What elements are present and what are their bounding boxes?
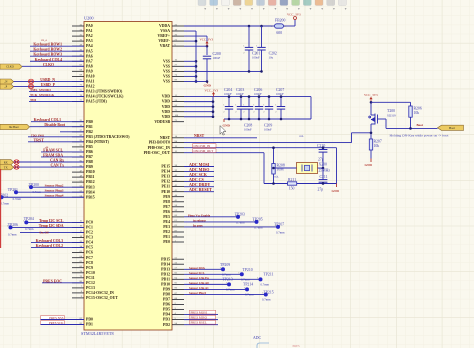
- svg-text:VSS: VSS: [163, 75, 170, 79]
- svg-text:1: 1: [23, 221, 24, 223]
- svg-text:PB10: PB10: [86, 170, 95, 174]
- svg-text:PC10: PC10: [86, 271, 95, 275]
- svg-text:PA9: PA9: [86, 69, 93, 73]
- svg-text:0.7mm: 0.7mm: [1, 202, 10, 206]
- wire Keyboard ROW2: [30, 50, 84, 52]
- wire T200 source: [370, 102, 372, 115]
- svg-text:1: 1: [253, 220, 254, 222]
- svg-text:STM32L4R5VET8: STM32L4R5VET8: [81, 331, 114, 336]
- svg-text:PD2: PD2: [163, 323, 170, 327]
- capacitor C204: [223, 97, 233, 119]
- svg-text:TP200: TP200: [29, 183, 39, 187]
- junction: [370, 101, 373, 104]
- svg-text:PRES EOC: PRES EOC: [43, 279, 62, 283]
- svg-text:0.7mm: 0.7mm: [254, 225, 263, 229]
- svg-text:PC3: PC3: [86, 236, 93, 240]
- net label PRES NSS (boxed): [41, 316, 65, 320]
- svg-text:PC12: PC12: [86, 281, 95, 285]
- svg-text:PE6: PE6: [163, 210, 170, 214]
- junction: [248, 95, 251, 98]
- svg-text:R207: R207: [374, 140, 382, 144]
- svg-text:Sensor 12in En: Sensor 12in En: [189, 276, 209, 280]
- svg-text:0.7mm: 0.7mm: [262, 298, 271, 302]
- svg-text:R206: R206: [414, 107, 422, 111]
- svg-text:1: 1: [243, 105, 244, 107]
- ferrite bead FB200: [271, 19, 295, 36]
- svg-text:FRAM SCL: FRAM SCL: [43, 148, 63, 152]
- svg-text:PH0-OSC_IN: PH0-OSC_IN: [148, 146, 171, 150]
- test point TP213: [223, 277, 236, 291]
- svg-text:100nF: 100nF: [252, 56, 260, 60]
- svg-text:T200: T200: [387, 109, 395, 113]
- svg-text:1: 1: [253, 105, 254, 107]
- svg-text:Temp I2C SCL: Temp I2C SCL: [39, 219, 64, 223]
- wire VDD vertical rail: [212, 97, 214, 117]
- net label PRES MISO (boxed): [190, 315, 216, 319]
- test point TP211: [257, 272, 273, 286]
- junction: [280, 95, 283, 98]
- wire VDDA rail: [184, 25, 272, 27]
- svg-text:In pres: In pres: [193, 223, 203, 227]
- wire TDI: [29, 101, 84, 103]
- junction: [272, 167, 275, 170]
- junction: [228, 95, 231, 98]
- svg-text:Sensor Plug1: Sensor Plug1: [189, 291, 207, 295]
- capacitor C209: [263, 97, 273, 119]
- svg-text:VDDA: VDDA: [159, 24, 170, 28]
- svg-text:VDD: VDD: [162, 95, 170, 99]
- wire PRES MOSI: [184, 314, 218, 316]
- svg-text:PB15: PB15: [86, 195, 95, 199]
- svg-text:ble Boot: ble Boot: [9, 126, 19, 129]
- svg-text:1: 1: [271, 26, 272, 28]
- svg-text:TP213: TP213: [223, 277, 233, 281]
- svg-text:TRST: TRST: [34, 137, 45, 142]
- svg-text:TX: TX: [4, 166, 8, 169]
- svg-text:CAN Rx: CAN Rx: [50, 158, 64, 162]
- wire PRES NSS: [41, 319, 85, 321]
- svg-text:10u: 10u: [269, 56, 274, 60]
- svg-text:PC8: PC8: [86, 261, 93, 265]
- svg-text:PB2: PB2: [86, 130, 93, 134]
- svg-text:VDD: VDD: [162, 110, 170, 114]
- capacitor C202: [256, 26, 266, 71]
- svg-text:2: 2: [263, 111, 264, 113]
- svg-text:PD10: PD10: [161, 283, 170, 287]
- svg-text:PA7: PA7: [86, 59, 93, 63]
- svg-text:n.h.: n.h.: [300, 134, 305, 138]
- U200 left pins PA0-PA15 PB0-PB15 PC0-PC15 PD0-PD1: [72, 23, 130, 326]
- svg-text:TP211: TP211: [264, 272, 274, 276]
- no-ERC marker on CAN Rx: [14, 160, 19, 164]
- wire VBAT: [184, 45, 207, 47]
- svg-text:PA10: PA10: [86, 75, 95, 79]
- svg-text:NRST: NRST: [160, 136, 171, 140]
- junction: [212, 115, 215, 118]
- svg-text:PD6: PD6: [163, 303, 170, 307]
- svg-text:2: 2: [243, 111, 244, 113]
- svg-text:1: 1: [28, 185, 29, 187]
- svg-text:PC13: PC13: [86, 286, 95, 290]
- capacitor C203: [235, 97, 245, 119]
- svg-text:PE7: PE7: [163, 205, 170, 209]
- svg-text:OSC25M_OUT: OSC25M_OUT: [194, 149, 214, 153]
- wire VDD rows to rail: [184, 96, 213, 98]
- svg-text:PA11: PA11: [86, 80, 94, 84]
- ground GND (analog): [204, 82, 212, 88]
- svg-text:Piezo Vcc Enable: Piezo Vcc Enable: [188, 213, 211, 217]
- wire Sensor Plug4: [2, 196, 85, 198]
- wire Keyboard COL3: [31, 242, 84, 244]
- svg-text:1: 1: [262, 293, 263, 295]
- wire right vertical: [336, 148, 338, 184]
- capacitor C211: [318, 168, 328, 191]
- svg-text:On_Off: On_Off: [39, 231, 48, 234]
- svg-text:CLKO: CLKO: [6, 66, 14, 69]
- svg-text:TCK_SWDCLK: TCK_SWDCLK: [30, 93, 54, 97]
- svg-text:1: 1: [7, 226, 8, 228]
- wire CLKO: [22, 65, 84, 67]
- port CLKO: [0, 64, 22, 69]
- svg-text:PC4: PC4: [86, 241, 93, 245]
- no-ERC marker on USBD_P: [28, 84, 33, 88]
- svg-text:100nF: 100nF: [244, 127, 252, 131]
- svg-text:PD14: PD14: [161, 262, 170, 266]
- capacitor C206: [253, 97, 263, 119]
- svg-text:PC9: PC9: [86, 266, 93, 270]
- svg-text:Keyboard ROW1: Keyboard ROW1: [33, 43, 62, 47]
- wire Temp I2C SDA: [11, 226, 85, 228]
- wire VSS: [184, 75, 196, 77]
- svg-text:25MHz: 25MHz: [319, 168, 331, 172]
- svg-text:TDI: TDI: [30, 98, 37, 102]
- svg-text:PE10: PE10: [161, 190, 170, 194]
- wire VREF-: [184, 40, 196, 42]
- svg-text:Sensor SCL: Sensor SCL: [189, 271, 205, 275]
- svg-text:PE11: PE11: [162, 185, 171, 189]
- junction: [322, 146, 325, 149]
- wire VSSA: [184, 30, 196, 32]
- wire TRST: [28, 141, 84, 143]
- junction: [212, 110, 215, 113]
- svg-text:VSS: VSS: [163, 64, 170, 68]
- capacitor C200: [203, 56, 211, 81]
- junction: [195, 65, 198, 68]
- svg-text:in release: in release: [193, 218, 206, 222]
- svg-text:PE13: PE13: [161, 175, 170, 179]
- svg-text:PC2: PC2: [86, 231, 93, 235]
- svg-text:PE9: PE9: [163, 195, 170, 199]
- wire bottom rail right: [297, 183, 337, 185]
- svg-text:PD15: PD15: [161, 257, 170, 261]
- wire CAN Rx: [14, 161, 85, 163]
- wire PRES MISO: [184, 319, 218, 321]
- test point TP201: [8, 188, 22, 201]
- svg-text:1: 1: [13, 190, 14, 192]
- svg-text:PE8: PE8: [163, 200, 170, 204]
- junction: [260, 25, 263, 28]
- wire cap right drop: [310, 97, 312, 119]
- svg-text:VREF+: VREF+: [158, 34, 171, 38]
- wire OSC_OUT: [184, 152, 264, 154]
- svg-text:2: 2: [285, 26, 286, 28]
- svg-text:VDD: VDD: [162, 105, 170, 109]
- svg-text:PD5: PD5: [163, 308, 170, 312]
- transistor T200 SI2319 (PMOS): [369, 114, 386, 126]
- svg-text:Sensor Plug4: Sensor Plug4: [45, 194, 64, 198]
- junction: [272, 146, 275, 149]
- junction: [195, 40, 198, 43]
- svg-text:PRES MOSI: PRES MOSI: [191, 310, 207, 314]
- svg-text:PE1: PE1: [163, 235, 170, 239]
- svg-text:PC6: PC6: [86, 251, 93, 255]
- svg-text:PRES MISO: PRES MISO: [191, 315, 208, 319]
- svg-text:Sensor SDA: Sensor SDA: [189, 266, 206, 270]
- svg-text:100nF: 100nF: [254, 92, 262, 96]
- svg-text:PB7: PB7: [86, 155, 93, 159]
- svg-text:TP209: TP209: [220, 263, 230, 267]
- junction: [248, 118, 251, 121]
- wire VSS bottom rail: [196, 70, 262, 72]
- wire Sensor 12in En: [184, 278, 261, 280]
- junction: [322, 182, 325, 185]
- junction: [212, 105, 215, 108]
- test point TP207: [274, 222, 285, 234]
- svg-text:100nF: 100nF: [213, 56, 221, 60]
- power port VCC_3V3 (VDD rail): [205, 88, 219, 96]
- svg-text:0.7mm: 0.7mm: [261, 283, 270, 287]
- wire TCK_SWDCLK: [29, 96, 84, 98]
- wire to R206 top: [371, 101, 411, 103]
- wire VSS: [184, 80, 196, 82]
- svg-text:PRES: PRES: [293, 344, 301, 348]
- svg-text:PD12: PD12: [161, 272, 170, 276]
- svg-text:PA5: PA5: [86, 49, 93, 53]
- net label PRES RSEL (boxed): [190, 320, 216, 324]
- svg-text:TP214: TP214: [243, 282, 253, 286]
- svg-text:ADC: ADC: [253, 336, 261, 340]
- svg-text:1: 1: [263, 105, 264, 107]
- junction: [195, 75, 198, 78]
- junction: [195, 70, 198, 73]
- wire Piezo Vcc Enable: [184, 216, 238, 218]
- svg-text:PA4: PA4: [86, 44, 93, 48]
- svg-text:_N: _N: [3, 81, 7, 84]
- capacitor C208: [243, 97, 253, 119]
- wire VSS rail vertical: [195, 31, 197, 81]
- svg-text:TP206: TP206: [8, 223, 18, 227]
- test point TP206: [7, 223, 18, 236]
- test point TP209: [220, 263, 231, 277]
- svg-text:PE4: PE4: [163, 220, 170, 224]
- svg-text:VDD: VDD: [162, 115, 170, 119]
- junction: [280, 118, 283, 121]
- svg-text:U200: U200: [84, 16, 94, 21]
- toolbar icon strip (cut off at top): [198, 0, 347, 10]
- junction: [248, 25, 251, 28]
- svg-text:0.7mm: 0.7mm: [33, 190, 42, 194]
- wire bottom rail left: [264, 183, 288, 185]
- wire ADC DRDY: [184, 186, 214, 188]
- wire ADC SCK: [184, 176, 214, 178]
- svg-text:PE15: PE15: [161, 165, 170, 169]
- wire BOOT0 to T200: [352, 132, 372, 134]
- port Disable Boot: [0, 124, 30, 129]
- svg-text:2: 2: [256, 52, 257, 54]
- wire gate drop: [385, 119, 387, 128]
- svg-text:10k: 10k: [414, 111, 420, 115]
- svg-text:PD9: PD9: [163, 288, 170, 292]
- wire Keyboard ROW3: [30, 55, 84, 57]
- net label PRES SCK (boxed): [41, 321, 65, 325]
- junction: [240, 95, 243, 98]
- svg-text:C211: C211: [320, 175, 328, 179]
- svg-text:NRST: NRST: [194, 134, 205, 138]
- port USBD_N: [0, 79, 14, 84]
- svg-text:2: 2: [275, 111, 276, 113]
- svg-text:PC14-OSC32_IN: PC14-OSC32_IN: [86, 291, 114, 295]
- svg-text:1: 1: [235, 105, 236, 107]
- wire Sensor Plug1: [184, 293, 266, 295]
- wire ADC MOSI: [184, 166, 214, 168]
- wire BOOT0 riser: [351, 133, 353, 143]
- svg-text:2: 2: [243, 52, 244, 54]
- svg-text:PB6: PB6: [86, 150, 93, 154]
- svg-text:10k: 10k: [374, 144, 380, 148]
- junction: [268, 95, 271, 98]
- svg-text:PA2: PA2: [86, 34, 93, 38]
- svg-text:PE3: PE3: [163, 225, 170, 229]
- svg-text:_P: _P: [3, 86, 7, 89]
- wire ADC CS: [184, 181, 214, 183]
- wire TDO_SWO: [28, 136, 84, 138]
- svg-text:PC1: PC1: [86, 226, 93, 230]
- capacitor C207: [275, 97, 285, 119]
- svg-text:TP204: TP204: [24, 217, 34, 221]
- mouse cursor: [220, 126, 226, 136]
- port CAN RX: [0, 160, 14, 165]
- svg-text:PC15-OSC32_OUT: PC15-OSC32_OUT: [86, 296, 118, 300]
- svg-text:GND: GND: [365, 163, 373, 167]
- wire Keyboard ROW1: [30, 45, 84, 47]
- svg-text:1: 1: [226, 283, 227, 285]
- svg-text:1: 1: [243, 46, 244, 48]
- svg-text:1: 1: [220, 267, 221, 269]
- svg-text:Holding ON-Key while power on: Holding ON-Key while power on -> boot: [390, 133, 449, 137]
- svg-text:RX: RX: [4, 161, 8, 164]
- crystal X200: [274, 163, 331, 174]
- svg-text:VDDUSB: VDDUSB: [154, 120, 170, 124]
- svg-text:PB14: PB14: [86, 190, 95, 194]
- junction: [272, 182, 275, 185]
- ground GND (VDD caps): [223, 119, 231, 127]
- wire cap bottom rail: [224, 118, 311, 120]
- no-ERC marker on USBD_N: [28, 79, 33, 83]
- svg-text:PA15 (JTDI): PA15 (JTDI): [86, 100, 107, 104]
- test point TP203: [235, 212, 245, 224]
- wire FRAM SDA: [41, 156, 84, 158]
- svg-text:1: 1: [257, 278, 258, 280]
- test point TP210: [238, 268, 252, 282]
- svg-text:0.7mm: 0.7mm: [276, 230, 285, 234]
- svg-text:1: 1: [275, 225, 276, 227]
- svg-text:PB5: PB5: [86, 145, 93, 149]
- junction: [409, 127, 412, 130]
- wire USBD_P: [14, 85, 85, 87]
- svg-text:0.7mm: 0.7mm: [25, 227, 34, 231]
- wire to GND: [196, 81, 208, 83]
- capacitor C201: [243, 26, 253, 71]
- wire Sensor SCL: [184, 273, 242, 275]
- wire FRAM SCL: [41, 151, 84, 153]
- svg-text:0.7mm: 0.7mm: [236, 220, 245, 224]
- red clip edge line at left: [0, 169, 2, 248]
- svg-text:Keyboard ROW3: Keyboard ROW3: [33, 53, 62, 57]
- svg-text:PD8: PD8: [163, 293, 170, 297]
- wire PRES SCK: [41, 324, 85, 326]
- svg-text:VCC_3V3: VCC_3V3: [287, 12, 301, 16]
- wire USBD_N: [14, 80, 85, 82]
- sheet symbol ADC (cut off): [257, 343, 269, 348]
- junction: [206, 45, 209, 48]
- wire VSS: [184, 60, 196, 62]
- junction: [212, 100, 215, 103]
- svg-text:2: 2: [235, 111, 236, 113]
- net label OSC_IN (boxed): [193, 144, 217, 148]
- svg-text:PC7: PC7: [86, 256, 93, 260]
- svg-text:PE14: PE14: [161, 170, 170, 174]
- svg-text:Sensor 12in A0: Sensor 12in A0: [189, 281, 209, 285]
- wire Keyboard COL2: [31, 247, 84, 249]
- svg-text:VSS: VSS: [163, 80, 170, 84]
- svg-text:PA0: PA0: [86, 24, 93, 28]
- junction: [258, 95, 261, 98]
- junction: [248, 70, 251, 73]
- svg-text:PA13 (JTMS/SWDIO): PA13 (JTMS/SWDIO): [86, 90, 123, 94]
- svg-text:1: 1: [235, 215, 236, 217]
- wire PB2 stub: [60, 131, 84, 133]
- svg-text:PB13: PB13: [86, 185, 95, 189]
- svg-text:PD7: PD7: [163, 298, 170, 302]
- svg-text:Keyboard COL1: Keyboard COL1: [34, 118, 61, 122]
- wire VREF+: [184, 35, 207, 37]
- svg-text:SI2319: SI2319: [387, 113, 396, 117]
- svg-text:150: 150: [289, 187, 295, 191]
- wire Disable Boot: [30, 126, 85, 128]
- svg-text:Sensor Plug2: Sensor Plug2: [45, 184, 64, 188]
- svg-text:PB8: PB8: [86, 160, 93, 164]
- svg-text:PB4 (NTRST): PB4 (NTRST): [86, 140, 110, 144]
- svg-text:PD0: PD0: [86, 318, 93, 322]
- svg-text:Keyboard COL4: Keyboard COL4: [35, 58, 62, 62]
- junction: [195, 60, 198, 63]
- ground GND (crystal): [332, 184, 340, 194]
- wire Temp I2C SCL: [26, 221, 84, 223]
- test point TP202: [0, 194, 10, 206]
- svg-text:VDD: VDD: [162, 100, 170, 104]
- junction: [206, 80, 209, 83]
- svg-text:1: 1: [238, 273, 239, 275]
- svg-text:PE5: PE5: [163, 215, 170, 219]
- resistor R207: [369, 139, 382, 159]
- resistor R208: [272, 148, 285, 184]
- power port VCC_3V3 (VREF): [200, 38, 214, 47]
- svg-text:GND: GND: [204, 84, 212, 88]
- svg-text:2: 2: [253, 111, 254, 113]
- svg-text:PH1-OSC_OUT: PH1-OSC_OUT: [144, 151, 171, 155]
- wire Keyboard COL1: [31, 121, 84, 123]
- svg-text:27p: 27p: [318, 157, 324, 161]
